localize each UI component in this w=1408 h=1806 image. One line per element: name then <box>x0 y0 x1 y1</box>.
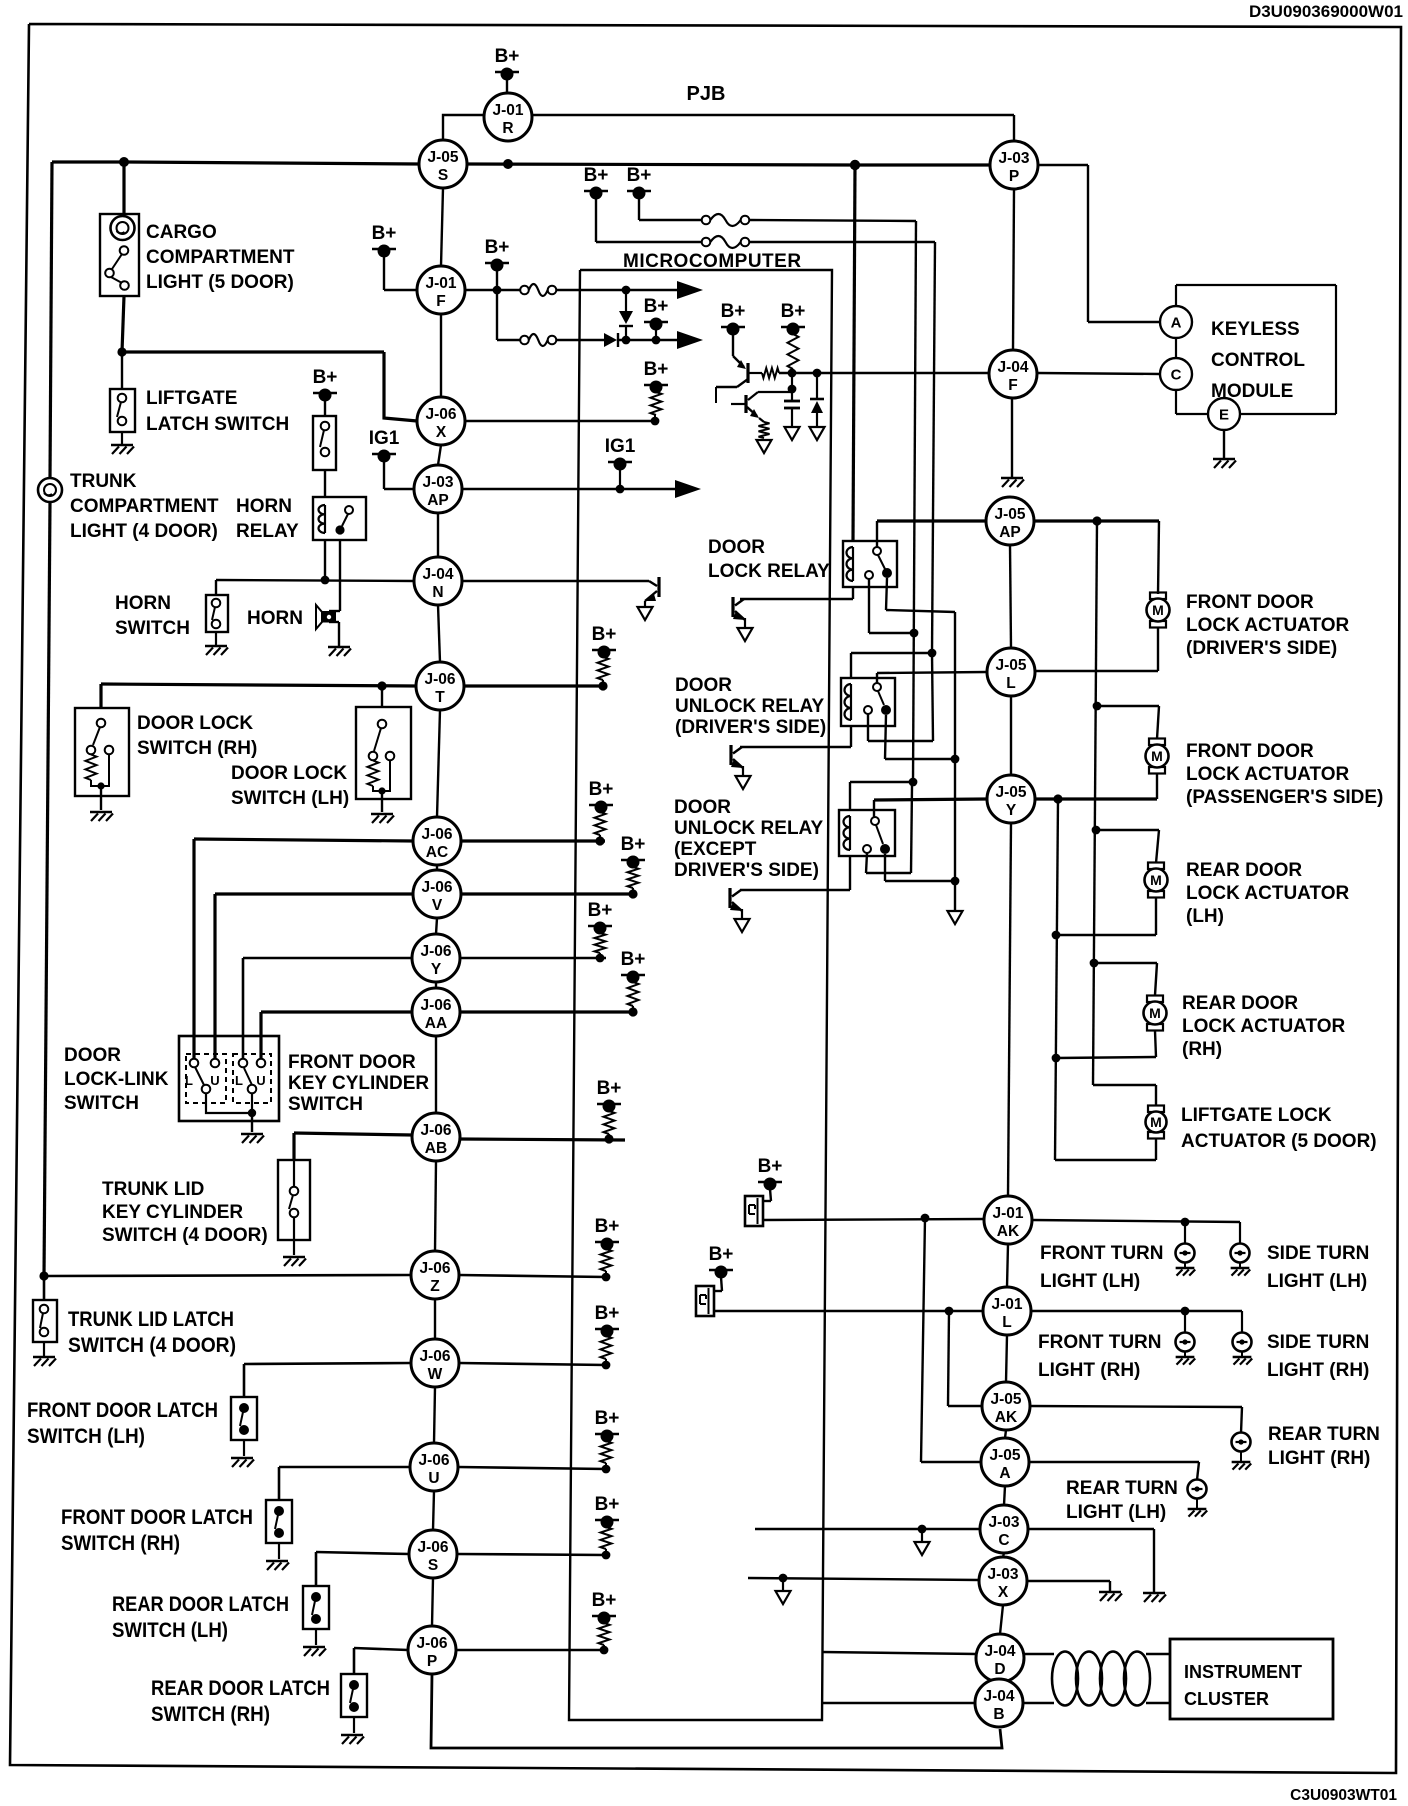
svg-text:(PASSENGER'S SIDE): (PASSENGER'S SIDE) <box>1186 787 1383 808</box>
ground X row right <box>1099 1592 1122 1601</box>
ground front turn RH <box>1176 1351 1196 1365</box>
switch box key-cylinder dashed <box>233 1054 271 1103</box>
label FRONT TURN LIGHT LH <box>1040 1243 1163 1292</box>
svg-text:E: E <box>1219 407 1229 424</box>
power B+ above latch switch <box>313 367 338 402</box>
svg-text:FRONT TURN: FRONT TURN <box>1038 1332 1161 1353</box>
node junction C row <box>918 1525 927 1534</box>
label DOOR LOCK RELAY <box>708 537 830 582</box>
svg-text:RELAY: RELAY <box>236 521 299 542</box>
svg-text:AC: AC <box>426 844 448 861</box>
svg-text:HORN: HORN <box>115 593 171 614</box>
svg-text:M: M <box>1151 748 1163 764</box>
svg-text:B+: B+ <box>584 165 609 186</box>
svg-text:CLUSTER: CLUSTER <box>1184 1689 1269 1709</box>
svg-text:(RH): (RH) <box>1182 1039 1222 1060</box>
wire J-03 C to J-03 X <box>1003 1553 1004 1557</box>
wire keyless E ground stem <box>1223 430 1225 458</box>
node junction front turn RH <box>1181 1307 1190 1316</box>
svg-text:B+: B+ <box>621 834 646 855</box>
power B+ fuse feed 1 <box>627 165 652 200</box>
connector J-06 P <box>408 1626 456 1674</box>
wire fuse y220 to vertical <box>750 220 917 782</box>
svg-text:LIGHT (LH): LIGHT (LH) <box>1040 1271 1140 1292</box>
wire lock-link out <box>206 1093 252 1113</box>
svg-text:J-06: J-06 <box>420 1122 451 1139</box>
ground door lock LH <box>371 814 394 823</box>
wire Q2 collector <box>748 392 792 400</box>
wire J-06 V row left <box>215 894 413 1061</box>
svg-text:J-06: J-06 <box>419 1348 450 1365</box>
connector J-06 S lower <box>409 1530 457 1578</box>
wire J-06 AC row left <box>194 839 413 1061</box>
wire M1 out <box>1157 627 1159 671</box>
svg-text:KEYLESS: KEYLESS <box>1211 319 1300 340</box>
ground horn <box>328 622 351 656</box>
svg-text:PJB: PJB <box>687 83 726 105</box>
relay coil unlock except <box>844 816 850 850</box>
svg-text:FRONT DOOR: FRONT DOOR <box>288 1052 416 1073</box>
svg-text:Z: Z <box>430 1278 440 1295</box>
relay box door unlock relay except <box>839 810 895 856</box>
svg-text:FRONT DOOR LATCH: FRONT DOOR LATCH <box>61 1506 253 1529</box>
wire J-05 AK row right <box>1030 1406 1242 1433</box>
wire J-06 P tail to J-04 B <box>431 1674 1002 1748</box>
svg-text:HORN: HORN <box>247 608 303 629</box>
node junction W row <box>602 1361 611 1370</box>
wire J-06 S row right <box>457 1549 606 1555</box>
svg-text:LOCK ACTUATOR: LOCK ACTUATOR <box>1186 883 1350 904</box>
wire M4 feed <box>1094 963 1157 995</box>
svg-text:DOOR LOCK: DOOR LOCK <box>137 713 253 734</box>
fuse F row 1 <box>520 284 556 296</box>
node junction AA row <box>628 1007 637 1016</box>
svg-text:L: L <box>235 1073 243 1088</box>
svg-text:Y: Y <box>431 961 442 978</box>
ground rear door latch RH <box>341 1717 364 1744</box>
relay contact unlock except <box>871 800 890 854</box>
wire actuator vertical 1 <box>1093 521 1097 1085</box>
wire J-04 N row right <box>462 580 649 582</box>
svg-text:DRIVER'S SIDE): DRIVER'S SIDE) <box>674 860 819 881</box>
label MICROCOMPUTER <box>623 251 802 272</box>
wire relay2 NC out <box>868 653 933 741</box>
wire M1 feed <box>1158 521 1159 594</box>
svg-text:J-05: J-05 <box>995 657 1026 674</box>
label FRONT DOOR LATCH SWITCH RH <box>61 1506 253 1555</box>
svg-text:COMPARTMENT: COMPARTMENT <box>70 496 219 517</box>
svg-text:DOOR: DOOR <box>674 797 731 818</box>
wire flasher L to J-01 L <box>714 1310 983 1312</box>
svg-text:J-01: J-01 <box>492 102 523 119</box>
power B+ W row <box>595 1303 620 1338</box>
ground arrow relay bus <box>948 911 963 924</box>
wire B+ row2 stem <box>655 329 657 340</box>
svg-text:P: P <box>1009 168 1019 185</box>
connector J-05 AK <box>982 1382 1030 1430</box>
svg-text:L: L <box>1002 1314 1011 1331</box>
svg-text:D3U090369000W01: D3U090369000W01 <box>1249 2 1403 21</box>
svg-text:TRUNK LID: TRUNK LID <box>102 1179 204 1200</box>
power B+ P row <box>592 1590 617 1625</box>
switch front door latch RH pins <box>274 1506 284 1538</box>
wire front turn LH stem <box>1184 1222 1186 1244</box>
label DOOR LOCK SWITCH LH <box>231 763 349 809</box>
label REAR TURN LIGHT LH <box>1066 1478 1178 1523</box>
node junction IG1 row <box>616 485 625 494</box>
svg-text:J-06: J-06 <box>424 671 455 688</box>
pin labels L U lock-link <box>185 1073 266 1088</box>
connector keyless A <box>1160 306 1192 338</box>
ground trunk key cylinder <box>283 1257 306 1266</box>
connector J-06 V <box>413 870 461 918</box>
wire J-04 F ground stem <box>1011 398 1013 477</box>
svg-text:SWITCH: SWITCH <box>288 1094 363 1115</box>
label FRONT TURN LIGHT RH <box>1038 1332 1161 1381</box>
lamp cargo compartment light <box>111 216 135 240</box>
svg-text:SIDE TURN: SIDE TURN <box>1267 1332 1369 1353</box>
node junction AP row <box>1092 516 1101 525</box>
switch rear door latch RH pins <box>349 1680 359 1712</box>
wire liftgate latch drop <box>121 352 123 389</box>
label TRUNK COMPARTMENT LIGHT <box>70 471 219 542</box>
connector keyless E <box>1208 398 1240 430</box>
ground lock-link switch <box>241 1134 264 1143</box>
svg-text:J-04: J-04 <box>984 1643 1015 1660</box>
wire J-06 AA row right <box>460 1006 637 1012</box>
switch box door lock LH <box>356 707 411 799</box>
diode D row2 <box>604 333 618 347</box>
svg-text:J-06: J-06 <box>418 1452 449 1469</box>
connector J-03 P <box>990 141 1038 189</box>
svg-text:B+: B+ <box>485 237 510 258</box>
svg-text:KEY CYLINDER: KEY CYLINDER <box>102 1202 243 1223</box>
wire B+ drop to row2 <box>497 290 520 340</box>
svg-text:J-03: J-03 <box>998 150 1029 167</box>
svg-text:J-05: J-05 <box>989 1447 1020 1464</box>
wire J-03 X row left <box>748 1578 979 1580</box>
node junction horn row <box>321 576 330 585</box>
wire J-05 L to J-05 Y <box>1010 696 1012 775</box>
connector J-06 Z <box>411 1251 459 1299</box>
wire B+ to fuse row y242 <box>596 198 701 242</box>
resistor pullup J-06 U <box>601 1441 612 1463</box>
zener diode keyless <box>810 373 824 426</box>
svg-text:TRUNK LID LATCH: TRUNK LID LATCH <box>68 1308 234 1331</box>
svg-text:J-03: J-03 <box>988 1514 1019 1531</box>
wire J-06 Y row right <box>460 953 606 958</box>
wire side turn LH stem <box>1239 1222 1241 1244</box>
resistor door lock LH <box>368 761 379 787</box>
svg-text:X: X <box>436 424 447 441</box>
label FRONT DOOR LATCH SWITCH LH <box>27 1399 218 1448</box>
node junction row2 left <box>622 336 631 345</box>
label HORN SWITCH <box>115 593 190 639</box>
lamp front turn RH <box>1176 1333 1195 1352</box>
lamp trunk compartment light <box>38 478 62 502</box>
wire B+ stem J-01 R <box>506 79 508 93</box>
svg-text:LOCK ACTUATOR: LOCK ACTUATOR <box>1182 1016 1346 1037</box>
ground arrow capacitor <box>785 427 800 440</box>
relay contact horn relay <box>335 506 353 535</box>
switch box rear door latch RH <box>341 1674 367 1717</box>
node junction AK row vertical <box>921 1214 930 1223</box>
svg-text:SWITCH (RH): SWITCH (RH) <box>61 1532 180 1555</box>
ground J-04 F <box>1001 478 1024 487</box>
connector J-06 AC <box>413 817 461 865</box>
switch trunk lid latch pins <box>40 1305 49 1337</box>
connector J-04 F <box>989 350 1037 398</box>
resistor pullup J-06 Z <box>601 1249 612 1271</box>
node junction AB row <box>604 1134 613 1143</box>
power B+ above fuse row <box>485 237 510 272</box>
wire J-05 AK to J-05 A <box>1005 1430 1006 1438</box>
svg-text:Y: Y <box>1006 802 1017 819</box>
node junction P row <box>600 1646 609 1655</box>
wire J-06 AC row right <box>461 835 605 841</box>
wire M5 feed <box>1093 1085 1156 1106</box>
wire J-01 AK row right <box>1032 1220 1240 1222</box>
wire J-06 V row right <box>461 888 637 894</box>
wire B+ res to X row <box>654 415 656 421</box>
keyless module box <box>1176 285 1336 414</box>
svg-text:B+: B+ <box>627 165 652 186</box>
svg-text:LOCK RELAY: LOCK RELAY <box>708 561 830 582</box>
connector J-05 L <box>987 648 1035 696</box>
switch box horn switch <box>206 595 228 632</box>
wire J-05 AP to J-05 L <box>1010 545 1011 648</box>
wire relay1 NC out <box>869 579 914 633</box>
svg-text:(DRIVER'S SIDE): (DRIVER'S SIDE) <box>675 717 826 738</box>
svg-text:AK: AK <box>997 1223 1020 1240</box>
svg-text:B+: B+ <box>592 1590 617 1611</box>
svg-text:M: M <box>1150 1114 1162 1130</box>
svg-text:B+: B+ <box>592 624 617 645</box>
svg-text:B+: B+ <box>372 223 397 244</box>
power B+ keyless left <box>721 301 746 336</box>
label TRUNK LID KEY CYLINDER SWITCH <box>102 1179 268 1246</box>
svg-text:B+: B+ <box>313 367 338 388</box>
lamp side turn RH <box>1233 1333 1252 1352</box>
wire J-05 Y row right <box>1035 797 1157 800</box>
svg-text:AA: AA <box>425 1015 447 1032</box>
svg-text:(LH): (LH) <box>1186 906 1224 927</box>
wire B+ fuse stem <box>496 270 498 290</box>
node junction J-01 R drop <box>503 159 513 169</box>
connector J-06 Y <box>412 934 460 982</box>
label LIFTGATE LATCH SWITCH <box>146 388 289 435</box>
svg-text:ACTUATOR (5 DOOR): ACTUATOR (5 DOOR) <box>1181 1131 1377 1152</box>
svg-text:U: U <box>210 1073 219 1088</box>
svg-text:AP: AP <box>999 524 1021 541</box>
svg-text:B+: B+ <box>758 1156 783 1177</box>
wire J-01 F fuse row 1 <box>465 289 520 291</box>
connector J-05 A <box>981 1438 1029 1486</box>
node junction L row vertical <box>945 1307 954 1316</box>
relay contact door lock <box>873 521 892 578</box>
svg-text:LIFTGATE: LIFTGATE <box>146 388 237 409</box>
label DOOR UNLOCK RELAY EXCEPT <box>674 797 824 881</box>
wire fuse1 to microcomputer <box>556 289 626 291</box>
wire horn relay contact to horn <box>329 540 340 611</box>
svg-text:LIGHT (RH): LIGHT (RH) <box>1038 1360 1140 1381</box>
svg-text:IG1: IG1 <box>605 436 636 457</box>
node junction relay1 NC <box>910 629 919 638</box>
wire J-03 P to J-04 F <box>1013 189 1014 350</box>
svg-text:L: L <box>185 1073 193 1088</box>
svg-text:D: D <box>994 1661 1005 1678</box>
svg-text:J-05: J-05 <box>990 1391 1021 1408</box>
wire front turn RH stem <box>1184 1311 1186 1333</box>
resistor pullup J-06 AC <box>595 812 606 835</box>
switch box liftgate latch <box>110 389 135 432</box>
power B+ flasher L <box>709 1244 734 1279</box>
flasher unit L <box>696 1286 714 1316</box>
power B+ above J-01 R <box>495 46 520 81</box>
svg-text:B+: B+ <box>644 359 669 380</box>
wire fuse y242 to vertical <box>750 242 936 653</box>
wire J-03 P to keyless A <box>1038 165 1160 322</box>
svg-text:J-03: J-03 <box>422 474 453 491</box>
diode D row1-2 vertical <box>619 290 633 340</box>
svg-text:AK: AK <box>995 1409 1018 1426</box>
document id bottom right <box>1290 1787 1397 1804</box>
node junction M3 return <box>1052 931 1061 940</box>
svg-text:LOCK ACTUATOR: LOCK ACTUATOR <box>1186 615 1350 636</box>
motor rear door lock actuator LH <box>1145 863 1168 898</box>
switch box above horn relay <box>313 416 336 470</box>
svg-text:B+: B+ <box>709 1244 734 1265</box>
svg-text:R: R <box>502 120 513 137</box>
svg-text:J-06: J-06 <box>416 1635 447 1652</box>
power B+ U row <box>595 1408 620 1443</box>
svg-text:B+: B+ <box>597 1078 622 1099</box>
node junction relay3 feed <box>909 778 918 787</box>
node junction T row <box>598 681 607 690</box>
motor rear door lock actuator RH <box>1144 996 1167 1031</box>
wire J-01 R to J-03 P <box>532 115 1014 141</box>
wire J-05 L row left <box>877 672 987 673</box>
node junction J-06 X row <box>651 417 660 426</box>
wire J-05 AP row right <box>1034 519 1159 522</box>
ground arrow C row <box>915 1529 930 1555</box>
wire B+ to flasher L <box>714 1277 722 1291</box>
wire J-06 T row left <box>101 684 416 686</box>
label PJB <box>687 83 726 105</box>
lamp rear turn LH <box>1188 1480 1207 1499</box>
wire lock-link ground stem <box>251 1113 253 1132</box>
wire relay3 coil feed <box>850 782 913 810</box>
node junction Y row right <box>1053 794 1062 803</box>
connector J-06 T <box>416 662 464 710</box>
svg-text:FRONT TURN: FRONT TURN <box>1040 1243 1163 1264</box>
switch cargo pins <box>105 246 129 290</box>
motor front door lock actuator passenger <box>1146 739 1169 774</box>
node junction diode drop <box>622 286 631 295</box>
label SIDE TURN LIGHT RH <box>1267 1332 1369 1381</box>
wire J-03 AP row right <box>462 488 676 490</box>
svg-text:J-03: J-03 <box>987 1566 1018 1583</box>
node junction relay2 feed <box>928 649 937 658</box>
svg-text:AB: AB <box>425 1140 447 1157</box>
document id top right <box>1249 2 1403 21</box>
svg-text:J-04: J-04 <box>983 1688 1014 1705</box>
power B+ row2 <box>644 296 669 331</box>
connector J-01 AK <box>984 1196 1032 1244</box>
svg-text:REAR TURN: REAR TURN <box>1066 1478 1178 1499</box>
wire relay1 NO out <box>886 578 955 911</box>
svg-text:J-06: J-06 <box>421 879 452 896</box>
label FRONT DOOR LOCK ACTUATOR PASSENGER <box>1186 741 1383 808</box>
wire relay3 NC out <box>866 786 912 873</box>
svg-text:COMPARTMENT: COMPARTMENT <box>146 247 295 268</box>
svg-text:A: A <box>999 1465 1010 1482</box>
resistor pullup J-06 W <box>601 1336 612 1359</box>
svg-text:LATCH SWITCH: LATCH SWITCH <box>146 414 289 435</box>
switch liftgate latch pins <box>117 394 126 426</box>
svg-text:V: V <box>432 897 443 914</box>
svg-text:DOOR: DOOR <box>64 1045 121 1066</box>
wire J-06 Z row right <box>459 1271 606 1277</box>
connector J-03 C <box>980 1505 1028 1553</box>
label REAR DOOR LOCK ACTUATOR LH <box>1186 860 1350 927</box>
svg-text:J-06: J-06 <box>420 997 451 1014</box>
ground side turn RH <box>1233 1351 1253 1365</box>
svg-text:B+: B+ <box>781 301 806 322</box>
switch box front door latch RH <box>266 1500 292 1543</box>
ground door lock RH <box>90 812 113 821</box>
svg-text:UNLOCK RELAY: UNLOCK RELAY <box>674 818 824 839</box>
switch door lock RH pins <box>87 719 114 755</box>
power B+ above J-06 X <box>644 359 669 394</box>
svg-text:J-06: J-06 <box>417 1539 448 1556</box>
wire keyless mid right <box>779 372 989 374</box>
connector J-06 W <box>411 1339 459 1387</box>
relay coil door lock <box>847 547 854 581</box>
node junction M3 feed <box>1092 826 1101 835</box>
connector J-04 B <box>975 1679 1023 1727</box>
relay box horn relay <box>313 497 366 540</box>
ground liftgate latch <box>111 432 134 454</box>
ground rear turn LH <box>1188 1498 1208 1517</box>
label FRONT DOOR LOCK ACTUATOR DRIVERS <box>1186 592 1350 659</box>
wire J-06 W row left <box>244 1363 411 1397</box>
svg-text:M: M <box>1152 602 1164 618</box>
transistor relay1 driver <box>733 597 753 641</box>
relay1 NC pin <box>865 571 873 579</box>
relay2 NC pin <box>864 706 872 714</box>
cable coil to instrument cluster <box>1024 1652 1170 1706</box>
fuse PJB row 2 <box>702 236 750 248</box>
wire fuse2 to diode <box>556 339 604 341</box>
wire arrow AP row head <box>675 480 701 498</box>
node junction liftgate row <box>117 347 126 356</box>
svg-text:T: T <box>435 689 445 706</box>
wire J-06 S row left <box>316 1552 409 1586</box>
label REAR DOOR LATCH SWITCH LH <box>112 1593 289 1642</box>
wire J-06 Z row left <box>44 1275 411 1276</box>
power B+ S row <box>595 1494 620 1529</box>
switch box front door latch LH <box>231 1397 257 1440</box>
wire M4 out <box>1056 1031 1156 1058</box>
node junction relay3 NO <box>951 877 960 886</box>
wire IG1 stem right <box>619 469 621 489</box>
svg-text:DOOR: DOOR <box>675 675 732 696</box>
svg-text:FRONT DOOR: FRONT DOOR <box>1186 592 1314 613</box>
transistor J-04 N driver <box>638 577 660 620</box>
label SIDE TURN LIGHT LH <box>1267 1243 1369 1292</box>
connector J-01 F <box>417 266 465 314</box>
